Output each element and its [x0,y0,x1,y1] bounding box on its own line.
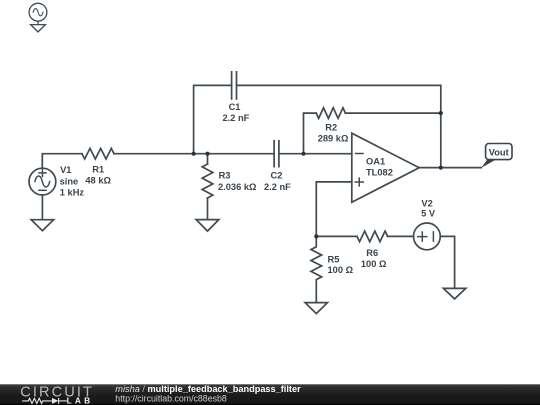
wire V1 to ground [41,195,43,220]
resistor R5 [311,236,322,302]
svg-text:289 kΩ: 289 kΩ [318,134,349,144]
svg-text:100 Ω: 100 Ω [328,265,354,275]
voltage source V1 [29,168,56,195]
svg-text:V2: V2 [421,198,432,208]
svg-text:R6: R6 [366,248,378,258]
node output rail junction [439,166,443,170]
CircuitLab logo zigzag and diode [22,398,67,404]
footer bar [0,384,540,405]
wire R6 left lead [316,235,357,237]
op-amp OA1 [352,133,419,202]
ghost voltage source artifact (top-left) [29,3,47,21]
capacitor C1 [232,72,237,99]
ground R3 [196,220,219,232]
svg-text:C2: C2 [271,171,283,181]
node C1 branch junction [192,152,196,156]
svg-text:1 kHz: 1 kHz [60,188,85,198]
svg-text:V1: V1 [60,165,71,175]
capacitor C2 [274,141,279,167]
wire C2 to op-amp minus input [279,153,352,155]
svg-text:C1: C1 [229,102,241,112]
resistor R2 [316,108,345,119]
svg-text:http://circuitlab.com/c88esb8: http://circuitlab.com/c88esb8 [115,393,227,403]
resistor R6 [357,231,388,242]
CircuitLab logo diode triangle [52,398,58,404]
node R3 junction [205,152,209,156]
svg-text:48 kΩ: 48 kΩ [85,176,111,186]
ground R5 [305,303,327,314]
wire R2 right to rail [345,112,440,114]
svg-text:LAB: LAB [67,396,94,405]
wire V2 to ground [440,236,454,288]
Vout flag [481,144,512,168]
svg-text:100 Ω: 100 Ω [361,259,387,269]
wire R2 branch left vertical [304,113,317,154]
svg-text:R1: R1 [92,165,104,175]
node R2 right rail junction [439,111,443,115]
wire R3 lead [207,154,209,164]
svg-text:R5: R5 [328,254,340,264]
wire C1 right to right rail [237,85,441,167]
svg-text:2.2 nF: 2.2 nF [264,182,291,192]
wire V1 top stub to R1 [42,154,82,168]
svg-text:Vout: Vout [489,147,509,157]
ground V2 [443,288,465,299]
svg-text:5 V: 5 V [421,208,436,218]
wire R3 to ground [207,198,209,220]
wire C1 branch left vertical [194,85,232,153]
resistor R3 [202,164,213,198]
svg-text:R2: R2 [325,123,337,133]
resistor R1 [82,148,114,159]
node R5 R6 junction [314,234,318,238]
ground V1 [31,220,53,231]
svg-text:OA1: OA1 [366,156,385,166]
svg-text:2.036 kΩ: 2.036 kΩ [218,182,257,192]
svg-text:R3: R3 [219,171,231,181]
ghost ground artifact [31,21,46,32]
wire R6 to V2 [388,235,414,237]
node R2 branch junction [301,152,305,156]
wire op-amp plus input [316,182,352,237]
svg-text:sine: sine [60,176,79,186]
wire op-amp output to Vout [419,167,481,169]
wire R1 to C2 [114,153,274,155]
voltage source V2 [414,223,441,250]
svg-text:TL082: TL082 [366,168,393,178]
svg-text:2.2 nF: 2.2 nF [223,113,250,123]
